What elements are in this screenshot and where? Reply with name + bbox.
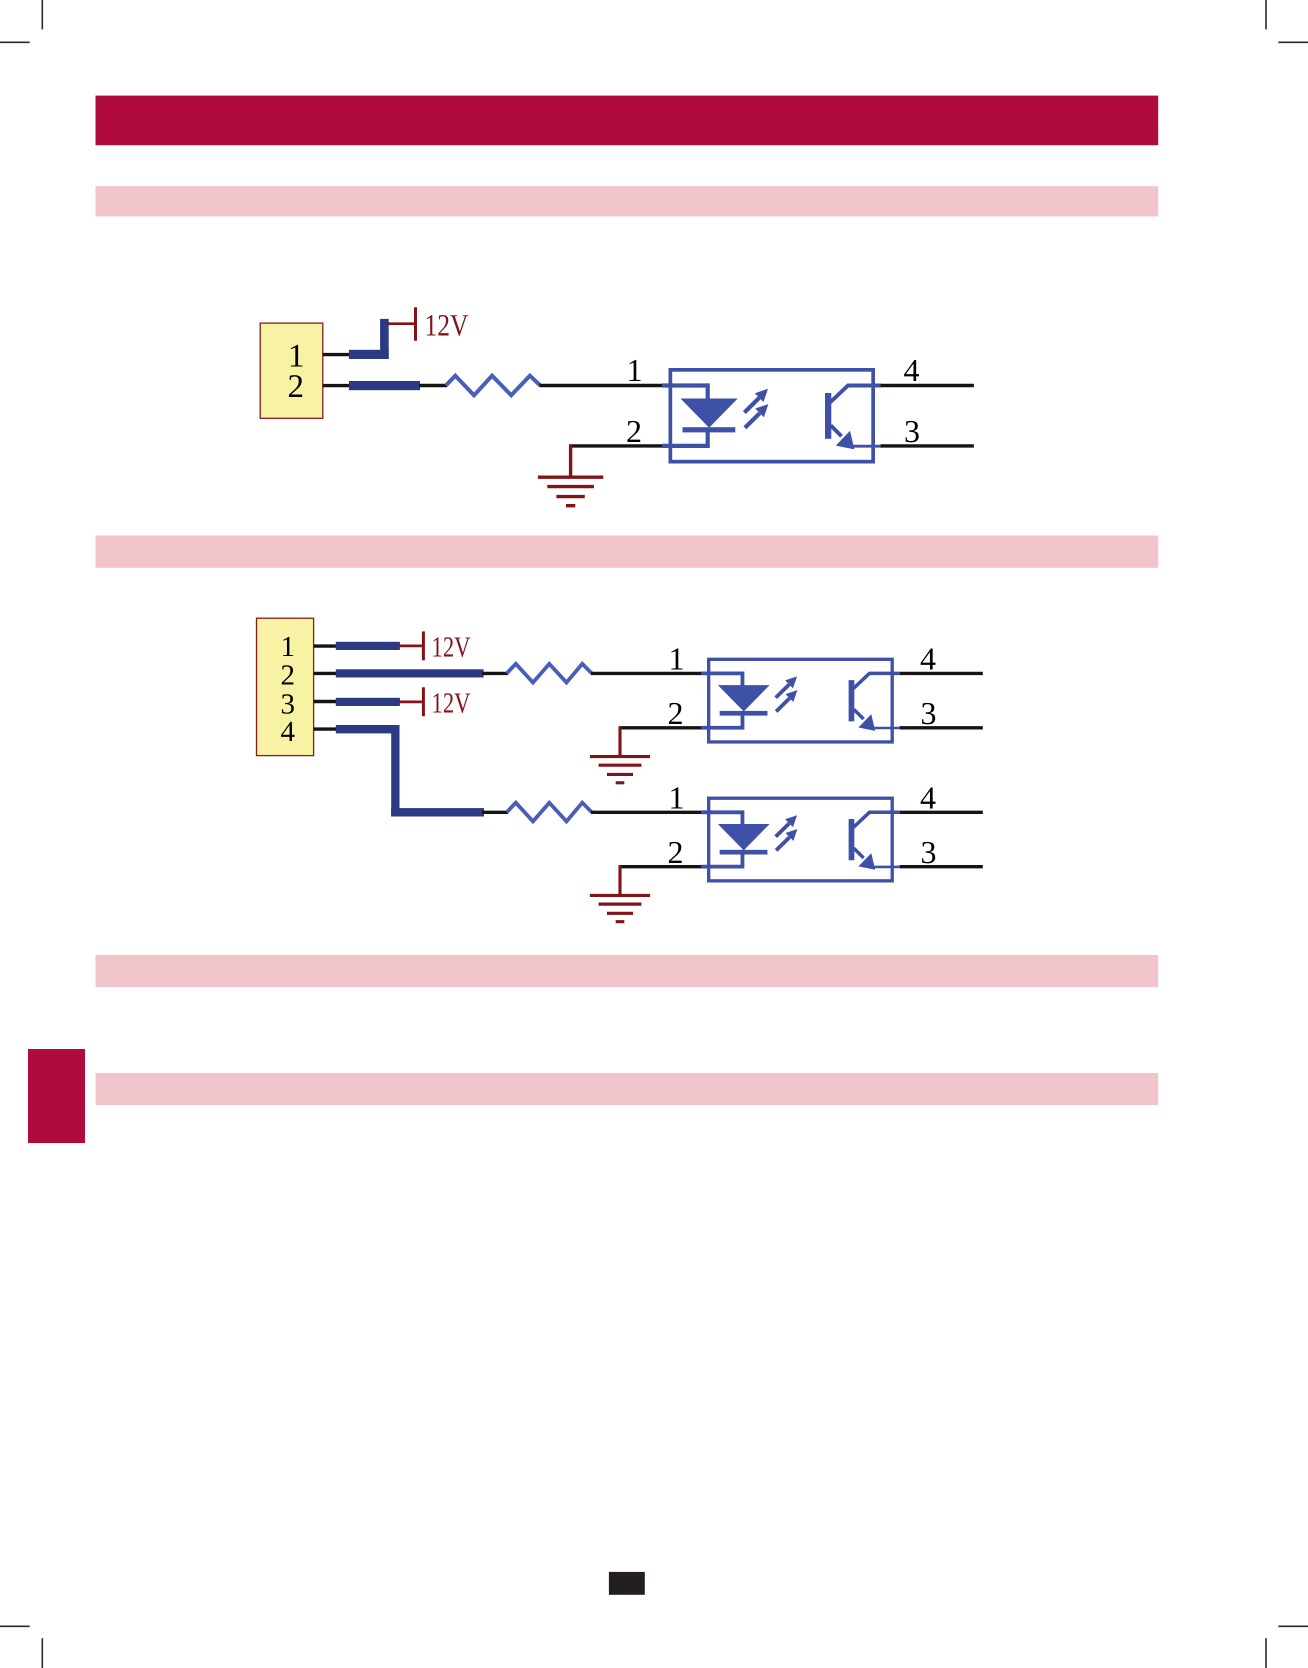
resistor R1: [446, 376, 540, 396]
wire J1 pin2 stub: [323, 384, 350, 387]
wire thick pin1 to 12V: [349, 319, 389, 359]
svg-text:12V: 12V: [432, 632, 471, 664]
page number box: [609, 1572, 645, 1595]
optocoupler U1: [662, 370, 881, 462]
section bar 3: [96, 955, 1159, 987]
svg-text:1: 1: [669, 641, 685, 677]
power symbol 12V (a): [422, 631, 425, 660]
wire R2 to opto U2 pin 1: [591, 672, 702, 675]
resistor R2: [507, 664, 592, 683]
svg-text:2: 2: [668, 834, 684, 870]
wire J2 pin2 stub: [314, 672, 337, 675]
wire 12V feed b: [399, 701, 422, 704]
svg-text:3: 3: [921, 834, 937, 870]
optocoupler U3: [701, 798, 899, 881]
power symbol 12V (b): [422, 687, 425, 716]
wire opto U3 pin 4 out: [900, 811, 983, 814]
ground (circuit 1): [538, 444, 603, 505]
svg-text:1: 1: [669, 779, 685, 815]
section bar 1: [96, 186, 1159, 216]
ground (circuit 2 upper): [590, 726, 650, 782]
wire opto U2 pin 3 out: [900, 726, 983, 729]
svg-text:3: 3: [904, 413, 920, 449]
connector J1: [260, 323, 323, 418]
wire J2 pin4 stub: [314, 727, 337, 730]
wire R3 to opto U3 pin 1: [591, 811, 702, 814]
svg-text:12V: 12V: [425, 308, 470, 343]
wire ground to opto U2 pin 2: [619, 726, 702, 729]
svg-text:4: 4: [920, 641, 936, 677]
svg-text:4: 4: [281, 716, 296, 748]
side tab: [28, 1049, 85, 1143]
wire to resistor R3: [482, 811, 508, 814]
wire thick pin3: [336, 698, 400, 706]
wire opto pin 4 out: [881, 384, 974, 387]
ground (circuit 2 lower): [590, 865, 650, 921]
wire 12V feed a: [399, 645, 422, 648]
wire opto U2 pin 4 out: [900, 672, 983, 675]
svg-text:4: 4: [920, 779, 936, 815]
wire 12V feed: [387, 322, 414, 325]
wire opto U3 pin 3 out: [900, 865, 983, 868]
wire ground to opto pin 2: [569, 444, 662, 447]
wire thick pin1: [336, 642, 400, 650]
resistor R3: [507, 803, 592, 822]
wire J1 pin1 stub: [323, 353, 350, 356]
wire thick pin2: [349, 381, 420, 390]
optocoupler U2: [701, 659, 899, 742]
wire to resistor R1: [419, 384, 447, 387]
svg-text:1: 1: [627, 352, 643, 388]
svg-text:2: 2: [668, 695, 684, 731]
svg-text:2: 2: [626, 413, 642, 449]
wire J2 pin3 stub: [314, 700, 337, 703]
connector J2: [257, 618, 314, 755]
svg-text:12V: 12V: [432, 687, 471, 719]
svg-text:1: 1: [281, 631, 296, 663]
wire thick pin4 L-shape: [336, 725, 484, 817]
wire thick pin2: [336, 669, 484, 677]
svg-text:2: 2: [281, 660, 296, 692]
section bar 4: [96, 1073, 1159, 1105]
wire ground to opto U3 pin 2: [619, 865, 702, 868]
svg-text:4: 4: [904, 352, 920, 388]
svg-text:3: 3: [921, 695, 937, 731]
wire J2 pin1 stub: [314, 644, 337, 647]
svg-text:2: 2: [288, 369, 305, 405]
header bar: [96, 96, 1159, 146]
wire opto pin 3 out: [881, 444, 974, 447]
power symbol 12V (circuit 1): [414, 307, 417, 340]
wire R1 to opto pin 1: [540, 384, 663, 387]
wire to resistor R2: [482, 672, 508, 675]
section bar 2: [96, 536, 1159, 568]
